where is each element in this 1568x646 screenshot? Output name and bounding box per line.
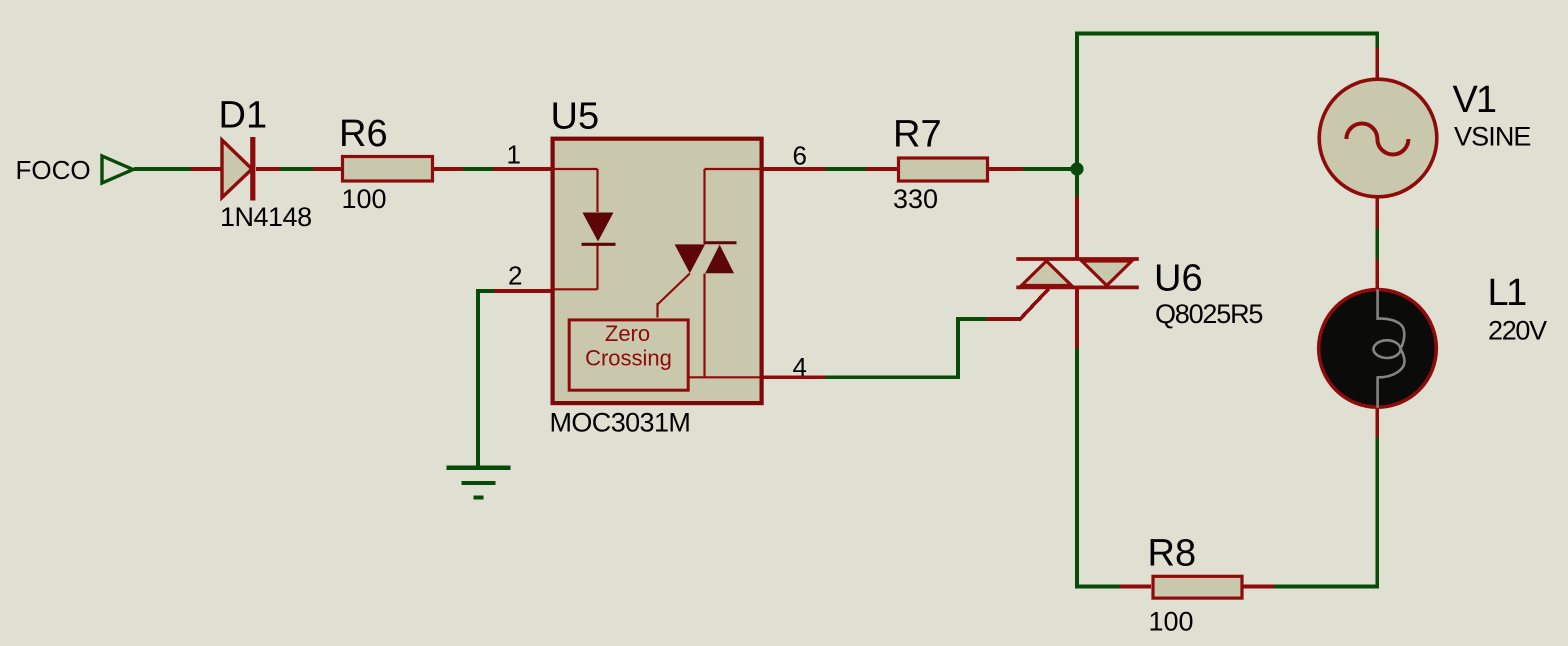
svg-text:FOCO: FOCO bbox=[16, 155, 91, 185]
svg-text:U6: U6 bbox=[1154, 258, 1203, 300]
svg-text:Zero: Zero bbox=[605, 321, 650, 346]
svg-text:V1: V1 bbox=[1453, 79, 1496, 121]
svg-text:L1: L1 bbox=[1488, 272, 1527, 314]
svg-text:Q8025R5: Q8025R5 bbox=[1155, 299, 1262, 329]
svg-text:1: 1 bbox=[507, 140, 521, 170]
svg-text:VSINE: VSINE bbox=[1454, 122, 1531, 152]
svg-text:MOC3031M: MOC3031M bbox=[550, 408, 691, 438]
svg-text:R6: R6 bbox=[339, 113, 388, 155]
svg-text:2: 2 bbox=[508, 261, 522, 291]
svg-text:R7: R7 bbox=[893, 114, 942, 156]
svg-text:100: 100 bbox=[342, 184, 387, 214]
svg-text:4: 4 bbox=[793, 352, 807, 382]
svg-text:330: 330 bbox=[893, 184, 938, 214]
svg-text:U5: U5 bbox=[551, 96, 600, 138]
svg-text:6: 6 bbox=[793, 141, 807, 171]
svg-text:100: 100 bbox=[1149, 607, 1194, 637]
svg-text:R8: R8 bbox=[1148, 533, 1197, 575]
svg-text:D1: D1 bbox=[219, 95, 268, 137]
svg-text:Crossing: Crossing bbox=[585, 346, 672, 371]
svg-text:220V: 220V bbox=[1488, 316, 1547, 346]
svg-text:1N4148: 1N4148 bbox=[220, 202, 312, 232]
